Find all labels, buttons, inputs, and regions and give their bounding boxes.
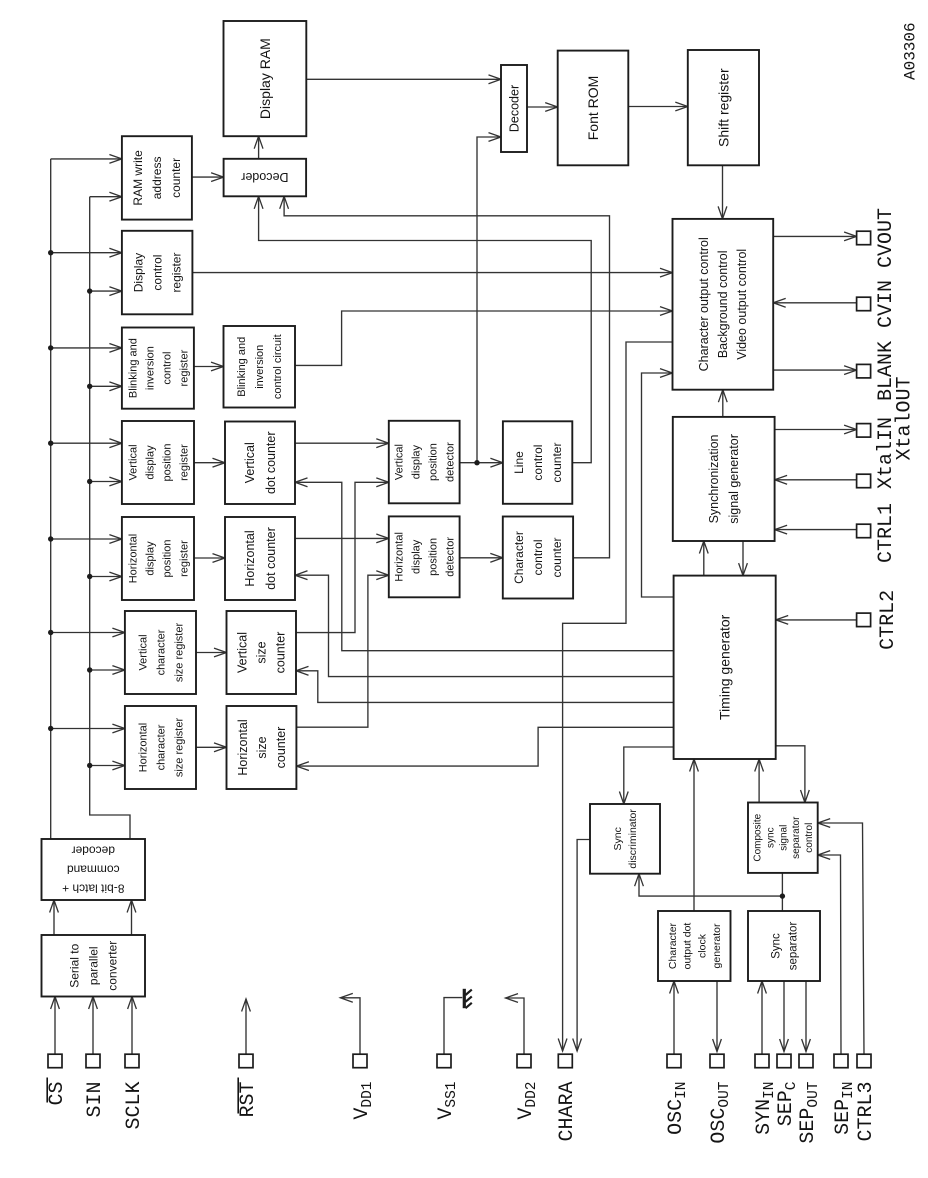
pin CS (48, 1054, 62, 1068)
wire Horizontal dot counter -> Horizontal display position detector (295, 537, 389, 539)
svg-text:CVOUT: CVOUT (875, 208, 898, 268)
pin CTRL2 (857, 613, 871, 627)
svg-text:control: control (150, 255, 164, 291)
svg-text:register: register (178, 540, 190, 577)
svg-text:counter: counter (550, 443, 564, 483)
wire Composite sync control -> Timing generator (758, 759, 760, 803)
wire bus2 -> Blinking and inversion control register (lower) (90, 385, 122, 387)
svg-text:Synchronization: Synchronization (707, 434, 721, 523)
svg-text:character: character (155, 724, 167, 770)
block Decoder (RAM address, flipped text) (224, 159, 307, 197)
svg-text:SIN: SIN (84, 1082, 107, 1118)
svg-text:Horizontal: Horizontal (236, 719, 250, 775)
wire Vertical dot counter -> Vertical display position detector (295, 442, 389, 444)
pin SIN (86, 1054, 100, 1068)
block Vertical dot counter (225, 422, 295, 505)
svg-text:character: character (155, 629, 167, 675)
block Display control register (122, 231, 192, 314)
wire Character control counter -> Decoder (RAM) lower-right input (284, 196, 609, 558)
svg-text:Blinking and: Blinking and (127, 338, 139, 398)
svg-text:Horizontal: Horizontal (243, 530, 257, 586)
pin CVIN (857, 297, 871, 311)
svg-text:A03306: A03306 (902, 22, 920, 80)
wire Serial converter -> 8-bit latch (left) (53, 900, 55, 935)
wire Line control counter -> Decoder (RAM) lower-left input (259, 196, 592, 462)
svg-text:display: display (411, 539, 423, 574)
wire Horizontal display position detector -> Character control counter (460, 557, 503, 559)
svg-text:Decoder: Decoder (507, 85, 521, 132)
svg-text:counter: counter (550, 537, 564, 577)
wire Font ROM -> Shift register (628, 106, 688, 108)
svg-text:output dot: output dot (682, 923, 694, 970)
wire Blinking circuit -> Character output control (295, 311, 673, 365)
overline for RST (237, 1078, 239, 1114)
wire VSS1 pin -> ground (444, 998, 462, 1055)
ground symbol (VSS1) (463, 989, 466, 1008)
pin SEPC (777, 1054, 791, 1068)
svg-text:Video output control: Video output control (735, 249, 749, 360)
block Timing generator (674, 576, 776, 759)
svg-text:CTRL3: CTRL3 (855, 1082, 878, 1142)
block Horizontal dot counter (225, 517, 295, 600)
svg-text:RST: RST (237, 1082, 260, 1118)
wire VDD2 pin (arrow left) (506, 998, 525, 1054)
wire bus2 -> Display control register (lower) (90, 290, 122, 292)
pin CVOUT (857, 231, 871, 245)
block Display RAM (224, 21, 307, 136)
wire XtalIN pin -> Synchronization signal generator (775, 479, 857, 481)
wire VDD1 pin (arrow left) (340, 998, 360, 1055)
block Serial to parallel converter (42, 935, 146, 997)
svg-text:decoder: decoder (72, 843, 115, 857)
wire bus1 -> Vertical character size register (upper) (51, 632, 125, 634)
block Decoder (font) (501, 65, 527, 152)
svg-text:position: position (428, 538, 440, 576)
svg-text:CTRL2: CTRL2 (877, 590, 900, 650)
svg-text:control: control (161, 352, 173, 385)
wire RST pin (arrow up) (245, 999, 247, 1054)
wire bus2 -> Horizontal character size register (lower) (90, 765, 125, 767)
svg-text:Decoder: Decoder (241, 170, 288, 184)
wire bus 2 (8-bit latch output bus, vertical with jog) (90, 197, 130, 839)
svg-text:counter: counter (274, 727, 288, 769)
svg-text:counter: counter (274, 632, 288, 674)
block Blinking and inversion control circuit (224, 326, 296, 408)
overline for CS (46, 1078, 48, 1103)
wire CS pin -> Serial to parallel converter (54, 997, 56, 1055)
svg-text:control: control (531, 445, 545, 481)
svg-text:Timing generator: Timing generator (717, 614, 733, 720)
pin SYNIN (755, 1054, 769, 1068)
wire Timing generator -> Vertical dot counter (295, 482, 674, 650)
wire bus1 -> RAM write address counter (upper) (51, 158, 122, 160)
svg-text:control: control (804, 823, 815, 853)
svg-text:Character output control: Character output control (697, 237, 711, 371)
svg-text:8-bit latch +: 8-bit latch + (62, 881, 124, 895)
wire Vertical display position register -> Vertical dot counter (194, 462, 225, 464)
pin SEPIN (834, 1054, 848, 1068)
wire CTRL1 pin -> Synchronization signal generator (775, 529, 857, 531)
svg-text:Sync: Sync (771, 933, 783, 959)
wire Synchronization signal generator -> Timing generator (742, 541, 744, 576)
svg-text:dot counter: dot counter (264, 527, 278, 590)
svg-text:register: register (178, 444, 190, 481)
wire bus1 -> Horizontal display position register (upper) (51, 538, 122, 540)
svg-text:Vertical: Vertical (243, 442, 257, 483)
wire bus 1 (8-bit latch output bus, vertical) (50, 159, 52, 839)
wire bus2 -> Horizontal display position register (lower) (90, 576, 122, 578)
wire Timing generator -> Sync discriminator (624, 747, 674, 804)
pin VDD1 (353, 1054, 367, 1068)
wire OSCIN pin -> Character output dot clock generator (673, 981, 675, 1054)
svg-text:CHARA: CHARA (556, 1082, 579, 1142)
wire Horizontal size counter -> Horizontal display position detector (296, 575, 388, 727)
svg-text:inversion: inversion (254, 345, 266, 389)
svg-text:Vertical: Vertical (127, 444, 139, 480)
svg-text:signal generator: signal generator (727, 434, 741, 524)
wire Sync separator -> SEPOUT pin (805, 981, 807, 1052)
wire Synchronization signal generator -> Character output control (722, 390, 724, 417)
wire Sync discriminator -> CHARA pin (577, 840, 590, 1052)
wire Display RAM -> Decoder (font) (306, 78, 501, 80)
wire bus1 -> Vertical display position register (upper) (51, 442, 122, 444)
wire Timing generator -> Character output control (642, 373, 674, 597)
pin VSS1 (437, 1054, 451, 1068)
svg-text:RAM write: RAM write (131, 150, 145, 206)
svg-text:Character: Character (512, 531, 526, 584)
block Vertical display position detector (389, 421, 460, 504)
svg-text:discriminator: discriminator (627, 809, 639, 869)
svg-text:Composite: Composite (753, 813, 764, 861)
wire bus2 -> RAM write address counter (lower) (90, 196, 122, 198)
block Horizontal size counter (227, 706, 297, 789)
wire Decoder (RAM) -> Display RAM (258, 136, 260, 159)
svg-text:counter: counter (169, 158, 183, 198)
block Character output dot clock generator (658, 911, 731, 981)
svg-text:Display: Display (131, 253, 145, 292)
svg-text:Sync: Sync (612, 827, 624, 850)
block Character output control / Background control / Video output control (673, 219, 774, 390)
block Font ROM (558, 51, 629, 166)
wire Character output dot clock generator -> OSCOUT pin (716, 981, 718, 1052)
pin CTRL3 (857, 1054, 871, 1068)
wire CTRL2 pin -> Timing generator (776, 619, 857, 621)
block RAM write address counter (122, 136, 192, 219)
wire Vertical display position detector -> Line control counter (460, 462, 503, 464)
wire SYNIN pin -> Sync separator (761, 981, 763, 1054)
wire Synchronization signal generator -> XtalOUT pin (775, 429, 857, 431)
wire Character output dot clock generator -> Timing generator (693, 759, 695, 911)
wire Sync separator -> SEPC pin (783, 981, 785, 1052)
wire CVIN pin -> Character output control (773, 302, 856, 304)
pin XtalIN (857, 474, 871, 488)
svg-text:XtalIN: XtalIN (875, 417, 898, 489)
block Synchronization signal generator (673, 417, 775, 541)
svg-text:Serial to: Serial to (68, 943, 82, 987)
svg-text:CS: CS (46, 1082, 69, 1106)
block Sync separator (748, 911, 820, 981)
svg-text:command: command (67, 862, 120, 876)
svg-text:Font ROM: Font ROM (585, 76, 601, 141)
wire CTRL3 pin -> Composite sync control (818, 823, 864, 1054)
wire branch junction -> Decoder (font) second input (477, 137, 501, 463)
svg-text:size: size (255, 641, 269, 663)
block Vertical display position register (122, 421, 194, 504)
svg-text:size register: size register (173, 718, 185, 778)
svg-text:position: position (161, 540, 173, 578)
wire Horizontal character size register -> Horizontal size counter (196, 746, 227, 748)
pin OSCOUT (710, 1054, 724, 1068)
wire Blinking register -> Blinking circuit (194, 366, 224, 368)
wire Character output control -> BLANK pin (773, 369, 856, 371)
wire Character output control -> CVOUT pin (773, 235, 856, 237)
wire Composite sync control -> Sync separator / Sync discriminator (junction) (781, 873, 783, 912)
block Horizontal character size register (125, 706, 196, 789)
block Vertical character size register (125, 611, 196, 694)
wire RAM write address counter -> Decoder (RAM) (192, 176, 224, 178)
wire Timing generator -> Horizontal dot counter (295, 575, 674, 676)
svg-text:sync: sync (766, 827, 777, 848)
wire Shift register -> Character output control (722, 165, 724, 219)
svg-text:separator: separator (791, 816, 802, 859)
svg-text:converter: converter (106, 941, 120, 991)
svg-text:Vertical: Vertical (236, 632, 250, 673)
svg-text:Horizontal: Horizontal (127, 534, 139, 584)
svg-text:CTRL1: CTRL1 (875, 503, 898, 563)
svg-text:Vertical: Vertical (137, 634, 149, 670)
svg-text:control: control (531, 539, 545, 575)
pin SEPOUT (799, 1054, 813, 1068)
svg-text:display: display (144, 445, 156, 480)
svg-text:display: display (144, 541, 156, 576)
pin CTRL1 (857, 524, 871, 538)
block Blinking and inversion control register (122, 328, 194, 409)
svg-text:generator: generator (711, 923, 723, 968)
svg-text:parallel: parallel (87, 946, 101, 985)
svg-text:register: register (169, 253, 183, 293)
svg-text:SCLK: SCLK (123, 1082, 146, 1130)
svg-text:Display RAM: Display RAM (257, 38, 273, 119)
svg-text:detector: detector (445, 442, 457, 482)
svg-text:detector: detector (445, 537, 457, 577)
block Composite sync signal separator control (748, 803, 818, 873)
pin BLANK (857, 364, 871, 378)
pin SCLK (125, 1054, 139, 1068)
wire Timing generator -> Composite sync signal separator control (776, 746, 805, 803)
block Character control counter (503, 517, 573, 599)
pin OSCIN (667, 1054, 681, 1068)
svg-text:dot counter: dot counter (264, 431, 278, 494)
svg-text:separator: separator (788, 922, 800, 971)
block Horizontal display position detector (389, 516, 460, 597)
svg-text:display: display (411, 444, 423, 479)
wire bus1 -> Display control register (upper) (51, 252, 122, 254)
block Line control counter (503, 421, 572, 504)
pin XtalOUT (857, 424, 871, 438)
pin RST (239, 1054, 253, 1068)
svg-text:control circuit: control circuit (272, 334, 284, 399)
svg-text:Shift register: Shift register (715, 68, 731, 147)
block Vertical size counter (227, 611, 297, 694)
wire Timing generator -> Vertical size counter (296, 671, 674, 703)
wire SIN pin -> Serial to parallel converter (92, 997, 94, 1055)
wire Vertical size counter -> Vertical display position detector (295, 482, 389, 632)
svg-text:size register: size register (173, 623, 185, 683)
svg-text:signal: signal (778, 825, 789, 851)
svg-text:Line: Line (512, 451, 526, 474)
wire Timing generator -> Synchronization signal generator (703, 541, 705, 576)
wire Decoder (font) -> Font ROM (527, 106, 558, 108)
svg-text:Horizontal: Horizontal (394, 532, 406, 582)
wire Character output control -> CHARA pin (via left edge) (563, 342, 673, 1051)
svg-text:Background control: Background control (716, 250, 730, 358)
svg-text:Vertical: Vertical (394, 444, 406, 480)
wire Vertical character size register -> Vertical size counter (196, 652, 227, 654)
svg-text:Horizontal: Horizontal (137, 723, 149, 773)
wire SCLK pin -> Serial to parallel converter (131, 997, 133, 1055)
block Shift register (688, 50, 759, 165)
block 8-bit latch + command decoder (flipped text) (42, 839, 146, 900)
svg-text:inversion: inversion (144, 346, 156, 390)
wire Timing generator -> Horizontal size counter (296, 727, 674, 766)
svg-text:clock: clock (696, 933, 708, 958)
svg-text:register: register (178, 349, 190, 386)
wire Horizontal display position register -> Horizontal dot counter (194, 557, 225, 559)
svg-text:position: position (428, 443, 440, 481)
wire bus1 -> Blinking and inversion control register (upper) (51, 347, 122, 349)
wire bus2 -> Vertical character size register (lower) (90, 669, 125, 671)
wire bus2 -> Vertical display position register (lower) (90, 481, 122, 483)
svg-text:position: position (161, 444, 173, 482)
wire bus1 -> Horizontal character size register (upper) (51, 728, 125, 730)
block Sync discriminator (590, 804, 660, 874)
svg-text:Character: Character (667, 922, 679, 969)
wire Serial converter -> 8-bit latch (right) (131, 900, 133, 935)
svg-text:CVIN: CVIN (875, 280, 898, 328)
pin CHARA (558, 1054, 572, 1068)
svg-text:size: size (255, 736, 269, 758)
svg-text:address: address (150, 157, 164, 200)
wire SEPIN pin -> Composite sync control (818, 855, 841, 1054)
block Horizontal display position register (122, 517, 194, 600)
svg-text:Blinking and: Blinking and (236, 337, 248, 397)
wire Display control register -> Character output control (192, 272, 672, 274)
pin VDD2 (517, 1054, 531, 1068)
